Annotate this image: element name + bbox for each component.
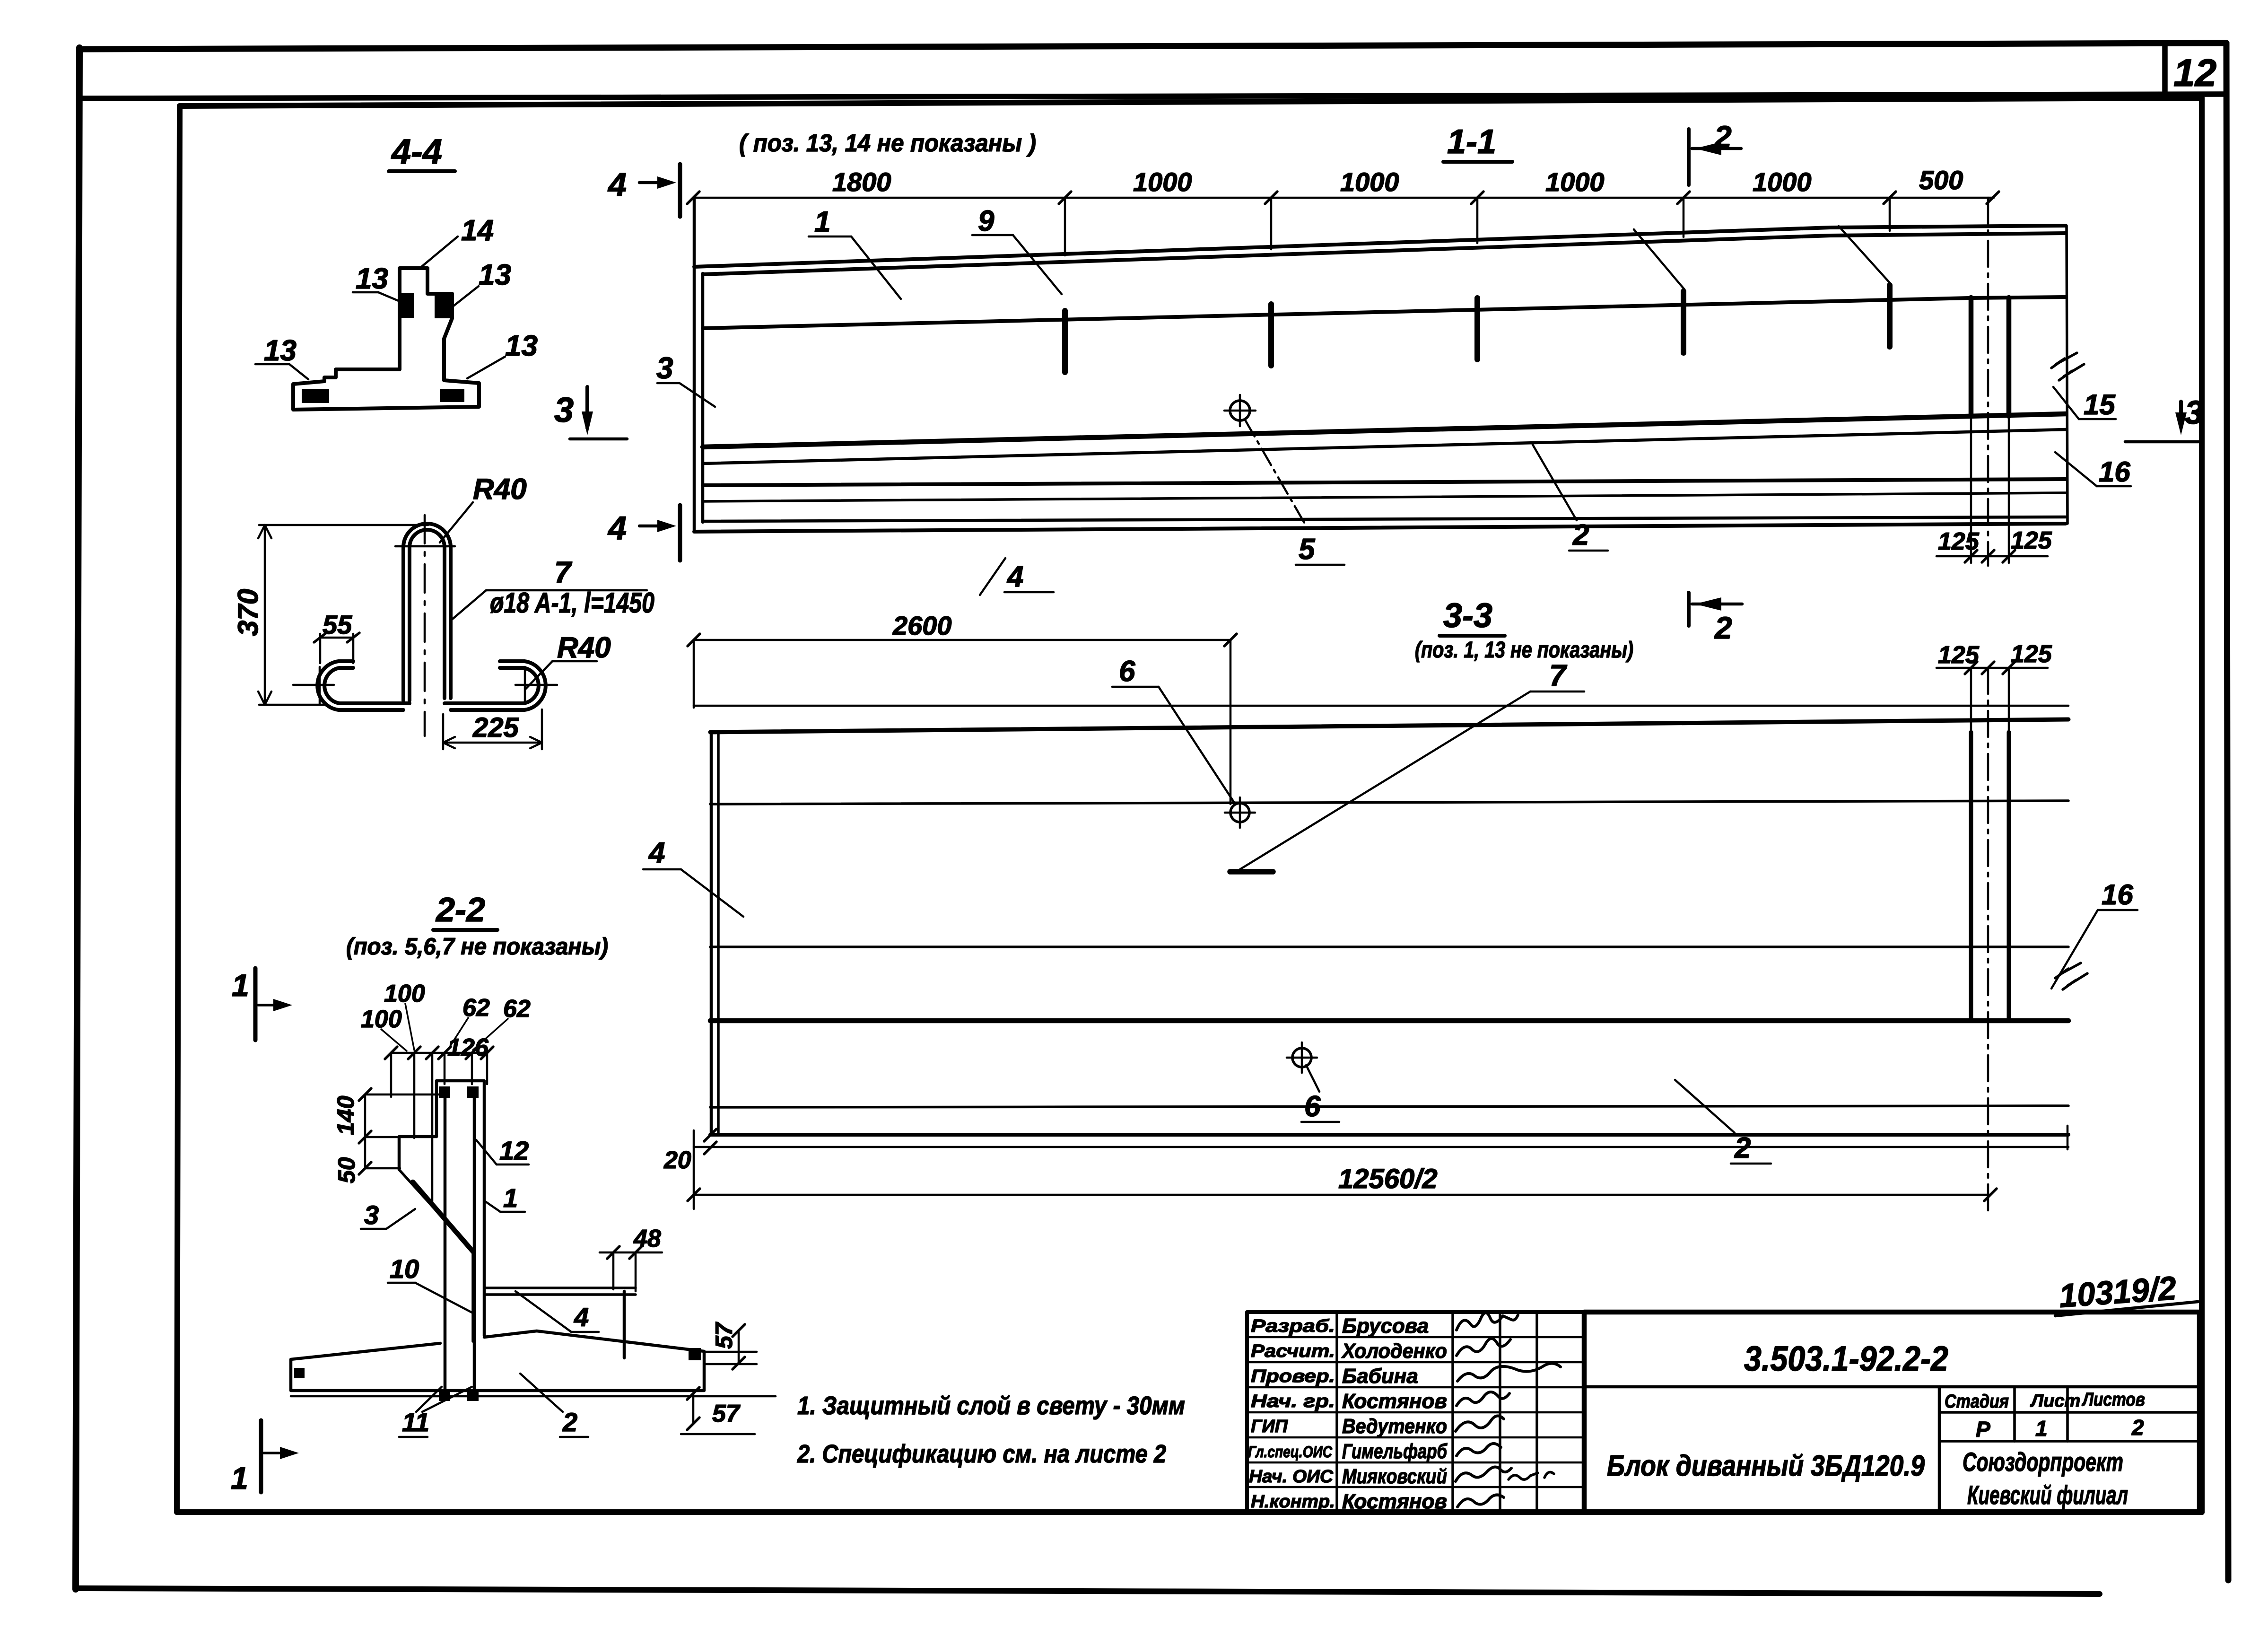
outer border bottom: [76, 1588, 2100, 1594]
label 4 pos leader: [515, 1291, 571, 1332]
svg-text:20: 20: [663, 1147, 691, 1174]
svg-text:Гл.спец.ОИС: Гл.спец.ОИС: [1248, 1443, 1332, 1461]
bottom-left S hook outer: [317, 661, 403, 710]
svg-text:2: 2: [1734, 1132, 1751, 1164]
left dim line vertical: [364, 1094, 366, 1168]
label 9 leader: [1013, 235, 1062, 294]
big box top cell divider: [1584, 1385, 2199, 1389]
outer border right: [2226, 43, 2228, 1580]
center line vertical: [424, 515, 426, 736]
section mark 3 right bar: [2179, 402, 2183, 427]
plan post right: [2007, 732, 2011, 1021]
dim 125 125 line plan: [1937, 667, 2048, 669]
svg-text:Блок диванный 3БД120.9: Блок диванный 3БД120.9: [1607, 1450, 1925, 1482]
lifting target C1: [1230, 803, 1249, 822]
lifting point target: [1230, 401, 1250, 420]
stirrup leader c: [1634, 229, 1684, 289]
svg-text:(поз. 1, 13 не показаны): (поз. 1, 13 не показаны): [1415, 638, 1633, 663]
beam top edge outer: [694, 226, 2066, 267]
plan left edge inner: [717, 734, 720, 1135]
section 4-4 outline: [293, 268, 479, 410]
top dim line 2-2: [391, 1052, 487, 1054]
top strip bottom line: [79, 94, 2225, 98]
dim 48 ticks: [607, 1246, 642, 1259]
break mark right: [2051, 353, 2077, 368]
svg-text:125: 125: [1938, 641, 1980, 669]
svg-text:4: 4: [574, 1302, 589, 1332]
signature squiggles: [1457, 1313, 1518, 1330]
svg-text:13: 13: [505, 330, 538, 362]
svg-text:Ведутенко: Ведутенко: [1342, 1415, 1447, 1438]
beam right ragged end: [2067, 226, 2067, 524]
svg-text:Союздорпроект: Союздорпроект: [1963, 1447, 2123, 1477]
plan line L2: [710, 801, 2068, 804]
label 16 plan underline: [2098, 909, 2137, 911]
svg-text:125: 125: [2011, 640, 2052, 668]
svg-text:1800: 1800: [832, 167, 891, 197]
bottom edge inner: [703, 517, 2066, 521]
svg-text:Нач. ОИС: Нач. ОИС: [1249, 1467, 1334, 1487]
label 16 plan leader: [2051, 910, 2098, 989]
plan post left: [1969, 732, 1973, 1021]
dim 48 extensions: [613, 1252, 636, 1291]
seat line: [703, 297, 2066, 328]
plan right end tick: [2067, 1126, 2069, 1149]
label 11 leaders: [416, 1387, 472, 1412]
svg-text:1: 1: [2035, 1416, 2048, 1441]
svg-text:14: 14: [461, 214, 494, 247]
svg-text:Гимельфарб: Гимельфарб: [1342, 1440, 1448, 1463]
svg-text:13: 13: [264, 334, 297, 367]
label 15 leader: [2053, 387, 2079, 419]
label 1 leader: [851, 236, 901, 299]
dim 2600 ext right: [1230, 640, 1232, 804]
rebar 7 bar in plan: [1230, 869, 1273, 875]
TITLE BLOCK: [1247, 1269, 2199, 1513]
svg-text:Лист: Лист: [2030, 1391, 2080, 1411]
dim 225: [443, 742, 542, 744]
svg-text:126: 126: [447, 1034, 489, 1061]
svg-text:R40: R40: [557, 631, 611, 664]
svg-text:ø18 A-1, l=1450: ø18 A-1, l=1450: [490, 587, 654, 619]
flange left end dot: [294, 1368, 305, 1378]
section mark 2 bottom arrow: [1695, 597, 1721, 611]
svg-text:2. Спецификацию см. на листе: 2. Спецификацию см. на листе 2: [797, 1440, 1166, 1468]
label 1 shelf: [809, 236, 851, 238]
label 2 plan underline: [1731, 1163, 1771, 1165]
section mark 2 top arm: [1692, 147, 1741, 150]
svg-text:1-1: 1-1: [1447, 123, 1496, 161]
svg-text:62: 62: [462, 994, 490, 1022]
leader 7: [451, 590, 486, 621]
svg-text:6: 6: [1119, 655, 1135, 688]
svg-text:140: 140: [332, 1095, 359, 1135]
label 6 bottom leader: [1306, 1065, 1319, 1092]
extension verticals at ticks: [1065, 198, 1890, 255]
date scribble row7: [1509, 1472, 1554, 1479]
weld plate flange right: [440, 389, 464, 402]
section mark 4 lower bar: [678, 505, 682, 560]
hairpin left leg inner: [410, 530, 445, 700]
lifting target C2: [1292, 1048, 1311, 1067]
svg-text:12: 12: [499, 1136, 529, 1165]
inner drawing frame: [180, 98, 2202, 106]
plan top thin line: [694, 705, 2068, 707]
bottom-left S hook: [324, 668, 410, 703]
header row line: [1939, 1411, 2199, 1414]
plan bottom bold line: [710, 1133, 2068, 1137]
shelf 7: [486, 589, 647, 592]
dim line top: [693, 197, 1994, 199]
svg-text:Разраб.: Разраб.: [1251, 1316, 1335, 1336]
dim 2600 line: [694, 639, 1230, 641]
leader 13 bottom-left: [289, 364, 308, 379]
svg-text:1: 1: [231, 1461, 248, 1496]
label 2 pos leader: [520, 1374, 563, 1412]
2-2 concrete outline: [436, 1081, 484, 1336]
label 2 pos underline: [560, 1436, 588, 1438]
svg-text:Бабина: Бабина: [1342, 1365, 1418, 1388]
header row line 2: [1939, 1440, 2199, 1443]
svg-text:3: 3: [2185, 394, 2203, 431]
sign table row lines: [1247, 1337, 1584, 1487]
diagonal rebar pos3: [413, 1182, 473, 1252]
dim 57 lower ticks: [687, 1387, 699, 1430]
sign table col lines: [1337, 1312, 1537, 1512]
svg-text:3-3: 3-3: [1443, 597, 1492, 635]
dim 48 line: [600, 1252, 662, 1254]
svg-text:Н.контр.: Н.контр.: [1251, 1492, 1335, 1512]
svg-text:1000: 1000: [1133, 167, 1192, 197]
cage top left dot: [439, 1086, 450, 1098]
svg-text:5: 5: [1299, 533, 1316, 566]
svg-text:1000: 1000: [1340, 167, 1399, 197]
label 12 leader: [476, 1140, 497, 1164]
section mark 4 upper arrow: [639, 181, 666, 184]
svg-text:50: 50: [333, 1157, 360, 1183]
dim 57 lower base: [681, 1433, 755, 1436]
bar with down arrow: [585, 387, 589, 428]
VIEW 1-1: [607, 119, 2203, 595]
cage bottom left dot: [439, 1390, 450, 1401]
plan line L5: [710, 1106, 2068, 1107]
dim 57 lower line: [692, 1393, 695, 1424]
svg-text:3: 3: [554, 390, 574, 429]
svg-text:370: 370: [232, 589, 264, 636]
center cross right hook: [515, 667, 557, 704]
svg-text:(поз. 5,6,7 не показаны): (поз. 5,6,7 не показаны): [346, 933, 608, 960]
flange outline: [291, 1331, 704, 1391]
dim 12560 ticks: [688, 1189, 1997, 1201]
post extensions down: [1971, 416, 2009, 563]
label 10 shelf: [388, 1282, 415, 1284]
svg-text:Листов: Листов: [2081, 1389, 2145, 1410]
section mark 1 upper bar: [253, 968, 258, 1040]
dim 55: [320, 637, 353, 639]
section mark 4 upper bar: [678, 164, 682, 217]
label 15 underline: [2079, 418, 2116, 420]
svg-text:1. Защитный слой в свету - 30: 1. Защитный слой в свету - 30мм: [797, 1392, 1185, 1420]
rebar pos4 bottom line: [484, 1293, 636, 1296]
lower line L3: [703, 479, 2066, 485]
plan line L4 bold: [710, 1018, 2068, 1024]
stirrup marks: [1065, 285, 1890, 372]
section mark 3 left: [554, 387, 627, 439]
svg-text:7: 7: [1549, 658, 1568, 692]
svg-text:1: 1: [232, 968, 249, 1003]
dim ticks: [687, 192, 1999, 204]
svg-text:4: 4: [607, 166, 627, 203]
dim 370 ext top: [259, 524, 428, 526]
outer border left: [76, 48, 79, 1589]
weld plate right of stem: [435, 294, 451, 318]
leader 13 top-left: [378, 292, 403, 303]
svg-text:1: 1: [503, 1183, 518, 1213]
stirrup leader d: [1839, 226, 1891, 284]
shelf 13 top-left: [353, 291, 378, 294]
plan line L3: [710, 945, 2068, 948]
svg-text:7: 7: [554, 555, 573, 589]
svg-text:3: 3: [656, 351, 673, 385]
svg-text:4-4: 4-4: [391, 132, 442, 171]
dim 55 ext: [320, 634, 353, 663]
label 6 top leader: [1159, 687, 1235, 804]
section mark 2 top bar: [1687, 129, 1691, 185]
big box: [1584, 1312, 2199, 1512]
svg-text:Брусова: Брусова: [1342, 1314, 1429, 1338]
svg-text:4: 4: [607, 509, 627, 546]
rebar cage right vertical: [473, 1093, 476, 1399]
beam left edge inner: [701, 273, 705, 522]
step left: [399, 1137, 436, 1170]
left dim ticks: [359, 1088, 371, 1174]
leader R40 top: [440, 502, 473, 543]
svg-text:125: 125: [1938, 528, 1980, 555]
section mark 1 upper arm: [258, 1004, 284, 1007]
svg-text:3: 3: [364, 1200, 379, 1230]
bottom-right hook: [445, 668, 539, 703]
bottom-right hook outer: [451, 661, 546, 710]
svg-text:225: 225: [472, 712, 519, 743]
svg-text:Костянов: Костянов: [1342, 1490, 1447, 1513]
svg-text:15: 15: [2084, 389, 2116, 420]
label 1 pos shelf: [500, 1211, 525, 1213]
dim 2600 ext left: [693, 640, 695, 708]
label 4 plan leader: [681, 869, 743, 917]
label 4 slash: [980, 558, 1005, 595]
svg-text:R40: R40: [473, 473, 527, 506]
label 10 leader: [415, 1283, 472, 1313]
dim 2600 ticks: [688, 634, 1237, 646]
VIEW 4-4: [255, 132, 538, 410]
svg-text:57: 57: [712, 1400, 741, 1427]
center cross left hook: [293, 667, 334, 704]
label 7 plan shelf: [1530, 691, 1584, 693]
title underline: [389, 169, 455, 173]
label 2 plan leader: [1675, 1080, 1735, 1133]
svg-text:Костянов: Костянов: [1342, 1390, 1447, 1413]
label 12 shelf: [497, 1164, 529, 1166]
ext bottom left: [693, 1130, 695, 1209]
section mark 3 right base: [2125, 440, 2200, 444]
dim 370 ext bottom: [259, 704, 326, 706]
beam top edge inner: [703, 233, 2066, 274]
post right: [2006, 298, 2012, 416]
svg-text:ГИП: ГИП: [1251, 1417, 1288, 1436]
bottom edge outer: [694, 524, 2066, 532]
label 6 top shelf: [1112, 686, 1159, 688]
label 4 pos shelf: [571, 1331, 599, 1333]
label 11 underline: [399, 1436, 427, 1438]
label 2 leader: [1533, 445, 1577, 520]
plan left edge outer: [710, 732, 713, 1135]
dim 370 arrows: [258, 525, 271, 705]
center line horizontal arc: [395, 545, 455, 548]
base line: [570, 438, 627, 441]
rebar cage left vertical: [444, 1093, 447, 1399]
dim 370 line: [264, 525, 266, 705]
cage top right dot: [467, 1086, 479, 1098]
break mark plan: [2055, 963, 2081, 978]
beam left edge outer: [693, 198, 696, 532]
label 4 underline: [1004, 591, 1054, 594]
dim 225 arrows: [443, 737, 542, 748]
post center line: [1987, 198, 1989, 566]
dim 57 upper ext: [705, 1352, 757, 1364]
label 3 pos shelf: [361, 1228, 386, 1230]
title 3-3 underline: [1439, 634, 1505, 638]
REBAR DETAIL pos.7: [232, 473, 654, 749]
name cell divider: [1938, 1387, 1941, 1512]
dim 12560 line: [694, 1194, 1990, 1196]
plan bottom thin line: [694, 1146, 2068, 1148]
section mark 1 lower arm: [264, 1452, 290, 1454]
left dim extensions: [365, 1094, 440, 1168]
leader R40 right: [526, 661, 552, 689]
label leader slashes: [381, 1004, 508, 1051]
rebar pos4 bend: [623, 1291, 626, 1358]
svg-text:Нач. гр.: Нач. гр.: [1251, 1392, 1335, 1411]
VIEW 3-3: [643, 593, 2137, 1211]
svg-text:2: 2: [1714, 610, 1732, 645]
svg-text:125: 125: [2011, 527, 2052, 554]
title 2-2 underline: [433, 928, 497, 932]
plan top bold line: [710, 719, 2068, 732]
label 1 pos leader: [485, 1201, 500, 1212]
leader to 5: [1245, 420, 1306, 526]
hairpin left leg outer: [403, 524, 451, 700]
svg-text:1000: 1000: [1545, 167, 1605, 197]
svg-text:2: 2: [1572, 519, 1589, 552]
svg-text:12560/2: 12560/2: [1338, 1164, 1438, 1194]
section mark 2 top arrow: [1695, 142, 1721, 155]
top dim ticks: [385, 1047, 493, 1059]
label 5 underline: [1296, 564, 1344, 566]
section mark 1 lower bar: [259, 1420, 263, 1492]
weld plate left of stem: [401, 293, 414, 318]
label 3 leader: [657, 383, 715, 407]
svg-text:1000: 1000: [1753, 167, 1812, 197]
label 6 bottom underline: [1301, 1121, 1339, 1123]
svg-text:9: 9: [978, 205, 994, 237]
shelf 13 bottom-left: [255, 363, 289, 366]
leader 13 top-right: [452, 286, 479, 307]
flange bottom thin line: [291, 1395, 776, 1398]
dim 125 ticks plan: [1965, 662, 2015, 674]
label 16 underline: [2097, 485, 2131, 488]
svg-text:500: 500: [1919, 165, 1963, 195]
svg-text:6: 6: [1304, 1090, 1321, 1123]
outer border top: [79, 43, 2226, 49]
sign table outline: [1247, 1312, 1584, 1512]
svg-text:Р: Р: [1976, 1417, 1990, 1442]
rebar pos4 top line: [484, 1287, 636, 1289]
chamfer diagonal outline: [399, 1170, 473, 1341]
lower line L4: [703, 493, 2066, 501]
svg-text:2: 2: [2131, 1415, 2144, 1440]
svg-text:Провер.: Провер.: [1251, 1366, 1335, 1386]
flange right end dot: [689, 1348, 701, 1360]
svg-text:1: 1: [814, 206, 830, 238]
plan post ext up: [1971, 668, 2009, 732]
dim 57 upper ticks: [733, 1324, 745, 1369]
leader 14: [421, 236, 458, 267]
svg-text:Холоденко: Холоденко: [1341, 1339, 1447, 1363]
label 3 pos leader: [386, 1209, 415, 1229]
dim 55 ticks: [314, 633, 359, 642]
top dim ext verticals: [391, 1053, 487, 1207]
svg-text:( поз. 13, 14 не показаны ): ( поз. 13, 14 не показаны ): [739, 130, 1036, 157]
label 16 leader: [2055, 452, 2097, 486]
section mark 4 lower arrow: [639, 525, 666, 528]
svg-text:10: 10: [390, 1254, 419, 1284]
SECTION 2-2: [231, 891, 776, 1496]
label 9 shelf: [972, 234, 1013, 236]
dim 125 ticks: [1965, 550, 2015, 562]
svg-text:Расчит.: Расчит.: [1251, 1341, 1335, 1361]
post left: [1969, 298, 1974, 416]
lower line L2: [703, 429, 2066, 464]
svg-text:4: 4: [1006, 560, 1023, 593]
svg-text:2-2: 2-2: [435, 891, 485, 929]
dim 125 125 line: [1937, 555, 2048, 558]
lower line L1 bold: [703, 414, 2066, 447]
svg-text:12: 12: [2173, 52, 2216, 95]
svg-text:2600: 2600: [892, 611, 952, 640]
label 7 plan leader: [1240, 692, 1530, 869]
svg-text:Мияковский: Мияковский: [1342, 1465, 1447, 1488]
svg-text:2: 2: [562, 1407, 577, 1437]
svg-text:48: 48: [633, 1225, 661, 1252]
svg-text:16: 16: [2102, 879, 2133, 910]
label 4 plan shelf: [643, 868, 681, 871]
svg-text:55: 55: [323, 610, 352, 639]
svg-text:4: 4: [648, 837, 665, 869]
svg-text:16: 16: [2099, 456, 2130, 488]
stamp number underline: [2055, 1302, 2198, 1316]
leader 13 bottom-right: [467, 357, 505, 378]
section mark 2 bottom arm: [1692, 603, 1742, 606]
NOTES: [797, 1392, 1185, 1468]
label 2 underline: [1569, 550, 1608, 552]
title 1-1 underline: [1443, 160, 1512, 164]
shelf R40 right: [552, 660, 597, 663]
weld plate flange left: [302, 389, 329, 403]
cage bottom right dot: [467, 1390, 479, 1401]
svg-text:Киевский филиал: Киевский филиал: [1967, 1480, 2128, 1510]
sheet number box divider: [2162, 45, 2168, 96]
section mark 2 bottom bar: [1687, 593, 1691, 626]
